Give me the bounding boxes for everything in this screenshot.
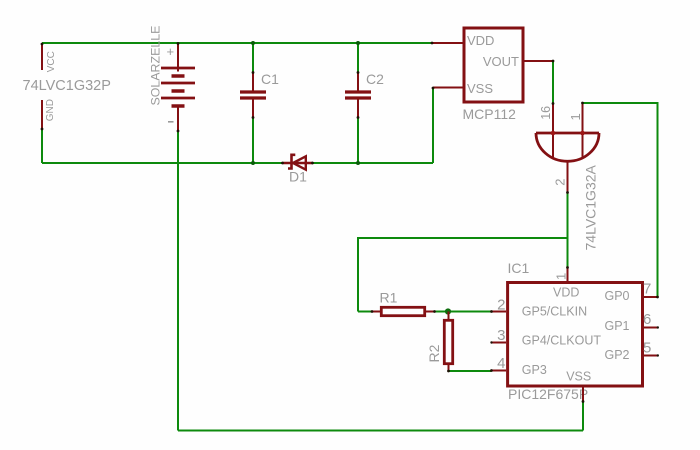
capacitor C1: [240, 43, 279, 163]
svg-text:VSS: VSS: [566, 370, 591, 384]
svg-text:16: 16: [539, 106, 553, 120]
wire R1 right to IC1 pin2: [435, 311, 492, 313]
junction dot gate pin1: [580, 131, 585, 136]
junction dot C2 top: [356, 41, 360, 45]
or-gate pin 2 output: [553, 162, 568, 193]
wire R1 left lead net: [358, 311, 372, 313]
junction dot gate pin16: [551, 131, 556, 136]
junction dot C1 top: [251, 41, 255, 45]
IC1 pin 7: [643, 281, 658, 298]
svg-text:VSS: VSS: [467, 81, 493, 96]
IC1 pin 1 VDD top: [554, 268, 569, 281]
MCP112 VDD pin: [432, 42, 463, 44]
svg-text:2: 2: [497, 296, 505, 313]
resistor R1: [372, 290, 435, 316]
svg-text:1: 1: [568, 113, 583, 120]
wire gate pin1 net to IC1 pin7: [583, 103, 658, 297]
IC U3 MCP112 box: [463, 28, 524, 122]
IC IC1 PIC12F675P box: [508, 260, 643, 402]
junction dot C2 bottom: [356, 161, 360, 165]
svg-text:SOLARZELLE: SOLARZELLE: [149, 26, 163, 106]
svg-text:R2: R2: [426, 344, 442, 362]
svg-text:R1: R1: [380, 290, 398, 306]
svg-text:GP1: GP1: [605, 319, 630, 333]
wire battery minus drop: [177, 131, 179, 431]
svg-text:VDD: VDD: [553, 286, 579, 300]
junction dot C1 bottom: [251, 161, 255, 165]
svg-text:7: 7: [643, 281, 651, 298]
svg-text:+: +: [167, 44, 175, 59]
IC1 pin 6: [643, 311, 658, 328]
svg-text:GP4/CLKOUT: GP4/CLKOUT: [522, 334, 602, 348]
svg-text:IC1: IC1: [508, 260, 530, 276]
wire bottom GND rail: [42, 162, 433, 164]
capacitor C2: [345, 43, 384, 163]
battery G1 SOLARZELLE: [149, 26, 196, 131]
svg-text:4: 4: [497, 355, 505, 372]
wire GND pin drop: [41, 129, 43, 163]
svg-text:5: 5: [643, 340, 651, 357]
wire MCP112 VSS drop: [432, 88, 434, 164]
svg-text:GP0: GP0: [605, 289, 630, 303]
power symbol U2 74LVC1G32P GND pin: [42, 99, 56, 129]
IC1 pin 3: [492, 327, 507, 344]
svg-text:6: 6: [643, 311, 651, 328]
pin endpoint dots: [41, 42, 659, 403]
diode D1 schottky: [283, 155, 314, 185]
IC1 pin 2: [492, 296, 507, 313]
svg-text:3: 3: [497, 327, 505, 344]
wire bottom long run: [178, 430, 583, 432]
junction dot R1-R2 node: [445, 308, 451, 314]
wire top rail VCC net: [42, 42, 432, 44]
wire gate output down: [567, 193, 569, 268]
wire R2 bottom to IC1 pin4: [449, 370, 492, 372]
svg-text:GP3: GP3: [522, 363, 547, 377]
svg-text:GP5/CLKIN: GP5/CLKIN: [522, 304, 587, 318]
wire VOUT drop: [552, 61, 554, 104]
svg-text:C1: C1: [261, 71, 279, 87]
or-gate U2 74LVC1G32A: [536, 133, 599, 251]
svg-text:GP2: GP2: [605, 348, 630, 362]
IC1 pin 8 VSS bottom: [582, 388, 584, 402]
svg-text:GND: GND: [45, 99, 56, 121]
svg-text:MCP112: MCP112: [463, 106, 517, 122]
label 74LVC1G32P: [23, 78, 111, 94]
IC1 pin 5: [643, 340, 658, 357]
MCP112 VOUT pin: [523, 60, 553, 62]
resistor R2: [426, 312, 452, 372]
IC1 pin 4: [492, 355, 507, 372]
wire mid horizontal to R1: [358, 238, 568, 312]
svg-text:1: 1: [554, 273, 569, 280]
svg-text:2: 2: [553, 179, 568, 186]
or-gate pin 1: [568, 103, 583, 158]
svg-text:VDD: VDD: [467, 33, 494, 48]
MCP112 VSS pin: [433, 87, 463, 89]
svg-text:74LVC1G32P: 74LVC1G32P: [23, 78, 111, 94]
wire up to IC1 VSS: [582, 402, 584, 431]
svg-text:VCC: VCC: [46, 51, 57, 72]
svg-text:VOUT: VOUT: [483, 54, 519, 69]
svg-text:74LVC1G32A: 74LVC1G32A: [583, 164, 599, 250]
or-gate pin 16: [539, 103, 553, 158]
power symbol U2 74LVC1G32P VCC pin: [42, 43, 57, 72]
svg-text:C2: C2: [366, 71, 384, 87]
svg-text:D1: D1: [289, 169, 307, 185]
svg-text:PIC12F675P: PIC12F675P: [508, 386, 588, 402]
